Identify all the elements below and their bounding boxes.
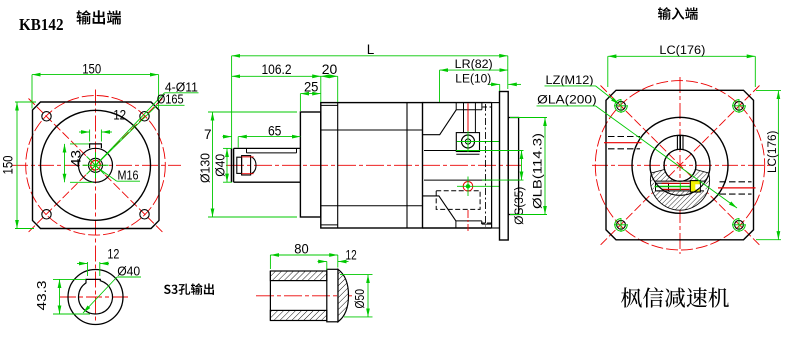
right view: red diagonal 1: [601, 86, 760, 246]
svg-text:M16: M16: [118, 169, 139, 183]
sleeve: cap: [327, 269, 338, 322]
right view: bolt hole M12 top-right: [733, 100, 745, 112]
top bolt head: [462, 135, 475, 148]
svg-text:7: 7: [204, 127, 212, 142]
dim 12 keyway: [89, 130, 91, 142]
dim L: [231, 56, 233, 148]
svg-text:43: 43: [69, 150, 84, 167]
svg-text:12: 12: [113, 108, 126, 123]
svg-text:ØLA(200): ØLA(200): [537, 93, 597, 107]
rear flange plate LE(10): [500, 92, 509, 241]
sleeve: left face: [269, 271, 271, 321]
left view: red diagonal centerline 1: [29, 99, 163, 233]
svg-text:LZ(M12): LZ(M12): [546, 73, 594, 87]
svg-text:150: 150: [82, 62, 101, 77]
bottom bolt green cross: [457, 185, 500, 187]
svg-text:Ø130: Ø130: [199, 153, 213, 183]
bell internal cone bottom: [423, 196, 456, 221]
dim D40 shaft: [223, 147, 232, 149]
bottom bolt end view: [463, 182, 473, 192]
right view: left side tapped hole hidden lines: [608, 136, 640, 138]
dim 25: [299, 94, 301, 111]
S3 view: outer circle: [68, 270, 123, 325]
svg-text:Ø50: Ø50: [353, 289, 367, 309]
top bolt boss: [456, 133, 479, 152]
right view: red diagonal 2: [601, 86, 760, 246]
right view: clamp band: [654, 181, 706, 191]
dim 12 flat width: [87, 262, 89, 276]
svg-text:KB142: KB142: [19, 15, 64, 34]
left view: keyway slot on bore: [90, 144, 102, 148]
dim 12 cap: [326, 262, 328, 271]
dim 106.2: [320, 76, 322, 102]
svg-text:Ø40: Ø40: [213, 154, 227, 177]
label 输入端 (input end): [658, 7, 698, 20]
sleeve: red centerline: [256, 295, 352, 297]
sleeve: top hatched wall: [270, 271, 326, 281]
left view: shaft bore D40: [79, 148, 113, 182]
svg-text:25: 25: [304, 79, 319, 94]
top bolt red centerline: [467, 103, 469, 132]
svg-text:43.3: 43.3: [35, 280, 49, 310]
dim 20: [337, 76, 339, 102]
bell bore lines: [424, 150, 492, 152]
svg-text:ØLB(114.3): ØLB(114.3): [533, 133, 545, 209]
left view: red diagonal centerline 2: [29, 99, 163, 233]
bottom bolt red centerline: [467, 210, 469, 231]
housing silhouette bottom: [321, 205, 423, 207]
right view: clamp red lines: [662, 182, 690, 184]
svg-text:ØS(35): ØS(35): [514, 187, 526, 225]
dim 150 left: [15, 101, 36, 103]
middle view: red centerline: [226, 164, 521, 166]
svg-text:106.2: 106.2: [262, 62, 292, 77]
rear boss DLB: [508, 118, 518, 215]
S3 view: red horizontal centerline: [60, 296, 131, 298]
top bolt counterbore walls: [463, 110, 465, 133]
dim D130: [208, 111, 297, 113]
svg-text:Ø165: Ø165: [157, 93, 184, 107]
svg-text:Ø40: Ø40: [117, 264, 140, 278]
right view: bolt hole M12 top-left: [615, 100, 627, 112]
svg-text:LR(82): LR(82): [455, 59, 493, 71]
right view: bore keyway slot: [677, 136, 683, 150]
left view: red bolt circle D165: [26, 96, 166, 236]
right view: input bore D40: [664, 149, 696, 181]
dim 7: [223, 136, 232, 138]
svg-text:20: 20: [322, 62, 338, 77]
label S3孔输出: [164, 283, 214, 295]
shaft keyway line: [247, 152, 297, 154]
right view: clamp hatch annulus: [650, 170, 709, 211]
svg-text:LC(176): LC(176): [767, 130, 779, 173]
right view: clamp green line: [655, 186, 701, 188]
flange hub step: [491, 103, 493, 228]
left view: bolt hole top-right: [140, 112, 149, 121]
right view: bell outer circle: [632, 117, 728, 213]
sleeve: dome end hatched: [338, 269, 349, 322]
right view: right side tapped hole hidden lines: [720, 181, 752, 183]
right view: square flange LC 176: [606, 90, 754, 240]
right view: clamp left key block: [656, 183, 669, 191]
dim LE(10): [499, 84, 501, 91]
left view: red vertical centerline: [95, 90, 97, 323]
svg-text:150: 150: [0, 156, 15, 175]
dim 43: [70, 143, 89, 145]
bell top access hole: [455, 103, 457, 110]
sleeve: bottom hatched wall: [270, 310, 326, 320]
right view: red bolt circle DLA 200: [595, 81, 764, 250]
bell outer bottom line: [423, 227, 492, 229]
dim DLB(114.3): [510, 117, 547, 119]
right view: red vertical centerline: [679, 77, 681, 254]
left view: square flange 150x150: [33, 102, 160, 229]
dim 80: [269, 255, 271, 269]
right view: bearing circle: [650, 135, 710, 195]
M16 thread red lines: [242, 156, 254, 158]
bore through flange: [508, 150, 518, 152]
dim LC(176) top: [607, 56, 609, 87]
svg-text:LC(176): LC(176): [659, 45, 705, 57]
right view: clamp bolt yellow: [690, 181, 700, 192]
main housing body: [321, 103, 423, 228]
dim 65: [237, 137, 239, 148]
dim DS(35): [456, 150, 524, 152]
front plate 25 thick: [300, 112, 320, 217]
svg-text:L: L: [367, 42, 375, 57]
hidden line bell bore dash-dot: [485, 104, 487, 227]
brand 枫信减速机: [621, 287, 729, 307]
left view: bolt hole top-left: [42, 112, 51, 121]
dim LC(176) right: [756, 90, 781, 92]
left view: green center mark star: [83, 164, 109, 166]
svg-text:12: 12: [346, 248, 357, 263]
top bolt green cross: [457, 141, 500, 143]
dim 43.3: [53, 278, 86, 280]
right view: bolt hole M12 bottom-left: [615, 219, 627, 231]
input shaft end face: [231, 148, 233, 182]
right view: red horizontal centerline: [592, 164, 770, 166]
right view: circles redraw over hatch: [650, 135, 710, 195]
housing silhouette top: [321, 129, 423, 131]
S3 view: bore D40 with flat: [78, 279, 112, 314]
left view: body circle D130: [41, 110, 151, 220]
left view: bolt hole bottom-right: [140, 210, 149, 219]
left view: M16 thread red arc: [91, 160, 101, 170]
bell internal cone top: [423, 110, 457, 135]
shaft body D40: [234, 147, 301, 149]
svg-text:80: 80: [294, 242, 308, 257]
label 输出端 (output end): [77, 10, 122, 24]
bell bottom step: [456, 220, 482, 222]
left view: bolt hole bottom-left: [42, 210, 51, 219]
M16 tapped hole in shaft end: [237, 157, 242, 173]
bell outer top line: [423, 102, 492, 104]
dim 150 top: [31, 75, 33, 109]
right view: bolt hole M12 bottom-right: [733, 219, 745, 231]
dim LR(82): [439, 70, 441, 102]
housing joint line 2: [406, 103, 408, 228]
bottom bolt hidden boss dashed: [436, 191, 480, 210]
svg-text:12: 12: [107, 247, 119, 262]
svg-text:65: 65: [268, 123, 282, 138]
housing joint line 1: [337, 103, 339, 228]
dim D50: [340, 274, 373, 276]
body front ring step lines: [321, 104, 338, 106]
svg-text:LE(10): LE(10): [455, 73, 491, 85]
left view: red horizontal centerline: [12, 164, 181, 166]
left view: M16 tapped hole: [89, 158, 103, 172]
